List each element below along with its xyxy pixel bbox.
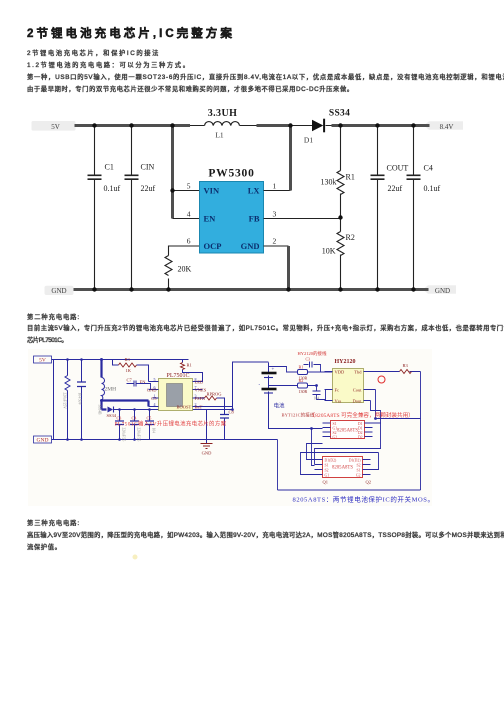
svg-text:C7: C7	[127, 378, 133, 383]
output capacitors C3 C4 C5 sch2	[115, 410, 154, 440]
net label 8.4V	[424, 121, 463, 131]
rotated value texts sch2	[63, 393, 156, 442]
svg-text:2MH: 2MH	[105, 387, 117, 393]
svg-text:G2: G2	[356, 474, 361, 478]
svg-text:S2: S2	[333, 431, 337, 435]
svg-text:3: 3	[273, 210, 277, 219]
resistor input R sch2	[65, 360, 70, 440]
svg-text:S2: S2	[356, 464, 360, 468]
battery cells sch2	[262, 363, 323, 429]
svg-text:BOOST: BOOST	[177, 405, 192, 410]
paragraph 2 line 2	[27, 335, 67, 344]
svg-text:G1: G1	[325, 474, 330, 478]
capacitor input C sch2	[77, 360, 86, 440]
schematic 2 background	[28, 349, 432, 506]
svg-text:RPROG: RPROG	[207, 392, 223, 397]
net label 5V sch2	[34, 356, 52, 364]
svg-text:3: 3	[195, 394, 197, 399]
svg-text:5V: 5V	[51, 123, 60, 131]
svg-text:S1: S1	[356, 469, 360, 473]
svg-text:GND: GND	[51, 287, 66, 295]
wire BAT to battery section	[203, 362, 269, 410]
svg-text:G1: G1	[333, 427, 338, 431]
svg-text:R1: R1	[346, 173, 355, 182]
svg-text:3.3UH: 3.3UH	[208, 108, 238, 119]
svg-text:HY2120的接线: HY2120的接线	[298, 350, 327, 357]
capacitor C1 0.1uf	[88, 127, 121, 290]
wires HY2120 to mosfets	[278, 372, 421, 491]
svg-text:1: 1	[273, 182, 277, 191]
paragraph 2 line 1	[27, 323, 504, 332]
junction dots schematic 1	[92, 123, 415, 291]
svg-text:Q1: Q1	[323, 480, 329, 485]
svg-text:8205A8TS：两节锂电池保护IC的开关MOS。: 8205A8TS：两节锂电池保护IC的开关MOS。	[293, 495, 435, 504]
svg-text:D1: D1	[358, 427, 363, 431]
svg-text:220uF/25V: 220uF/25V	[63, 393, 67, 410]
svg-text:104/50V: 104/50V	[78, 393, 82, 406]
svg-text:4: 4	[187, 210, 191, 219]
svg-text:D1: D1	[358, 422, 363, 426]
svg-text:+: +	[272, 368, 275, 373]
svg-text:COUT: COUT	[387, 164, 409, 173]
svg-text:0.1uf: 0.1uf	[104, 184, 121, 193]
wire pin5	[173, 190, 200, 192]
svg-text:R1: R1	[299, 365, 304, 370]
IC HY2120	[325, 359, 376, 404]
net label GND right	[423, 285, 456, 295]
svg-text:GND: GND	[147, 388, 157, 393]
svg-text:8.4V: 8.4V	[440, 123, 454, 131]
svg-text:Tbd: Tbd	[354, 370, 362, 375]
svg-text:130R: 130R	[299, 376, 308, 381]
svg-text:Fc: Fc	[335, 388, 340, 393]
blue pin digits sch2	[154, 377, 197, 407]
capacitor C4 0.1uf	[407, 127, 441, 290]
svg-text:R3: R3	[403, 363, 409, 368]
junction dots sch2	[66, 358, 377, 441]
sense resistors R1 R2 sch2	[269, 365, 333, 400]
wire pin4	[173, 218, 200, 220]
wire GND pin down	[264, 245, 289, 247]
svg-text:S2: S2	[325, 469, 329, 473]
svg-text:2: 2	[273, 237, 277, 246]
svg-text:22uf: 22uf	[141, 184, 156, 193]
net label GND left	[45, 286, 74, 295]
svg-text:R1: R1	[187, 363, 192, 368]
MOSFET pack Q2 8205A8TS	[315, 457, 372, 485]
wire 5V rail (thick)	[75, 124, 430, 127]
section heading 3	[27, 518, 80, 527]
wire LX to rail	[264, 190, 291, 192]
svg-text:D2: D2	[358, 436, 363, 440]
resistor R1 130k	[321, 127, 355, 218]
capacitor C8 sch2	[220, 410, 235, 440]
svg-text:VIN: VIN	[204, 186, 220, 196]
svg-text:D1(D2): D1(D2)	[325, 459, 338, 463]
svg-text:2: 2	[195, 402, 197, 407]
svg-text:（8205A8TS 可完全兼容，两颗封装共用）: （8205A8TS 可完全兼容，两颗封装共用）	[310, 411, 414, 419]
svg-text:GND: GND	[202, 451, 212, 456]
svg-text:4: 4	[154, 402, 156, 407]
wire thick L power path sch2	[102, 401, 149, 410]
MOSFET pack Q1 8205A8TS	[323, 421, 373, 440]
svg-text:D1: D1	[304, 136, 313, 145]
inductor L1 3.3UH	[205, 108, 240, 140]
wire FB to divider	[264, 218, 341, 220]
wire left vertical	[53, 360, 55, 440]
svg-text:6: 6	[154, 385, 156, 390]
svg-text:C3: C3	[306, 358, 311, 362]
svg-text:8205A8TS: 8205A8TS	[332, 466, 353, 471]
svg-text:LX: LX	[248, 186, 261, 196]
capacitor C7 top of chip sch2	[127, 378, 151, 390]
paragraph line 1	[27, 48, 160, 57]
svg-text:C1: C1	[105, 163, 114, 172]
wire GND rail (thick)	[72, 288, 429, 291]
paragraph line 3	[27, 72, 504, 81]
svg-text:PW5300: PW5300	[208, 168, 254, 180]
svg-text:6: 6	[187, 237, 191, 246]
svg-text:VDD: VDD	[335, 370, 345, 375]
svg-text:SS34: SS34	[329, 109, 350, 119]
svg-text:L1: L1	[215, 131, 224, 140]
wire pin6 + 20K branch	[169, 246, 200, 289]
inductor 2MH sch2	[102, 360, 117, 401]
svg-text:8: 8	[195, 377, 197, 382]
ground symbol sch2	[201, 410, 213, 456]
caps near HY2120	[304, 358, 321, 401]
net label 5V	[32, 121, 76, 131]
svg-text:220uF/25: 220uF/25	[122, 428, 126, 442]
svg-text:104: 104	[314, 397, 320, 401]
svg-text:5: 5	[154, 377, 156, 382]
svg-text:C4: C4	[424, 164, 433, 173]
svg-text:OCP: OCP	[204, 241, 222, 251]
svg-text:C5: C5	[147, 416, 152, 421]
svg-text:SS34B: SS34B	[98, 405, 102, 416]
svg-text:130k: 130k	[321, 178, 337, 187]
svg-text:SS34: SS34	[107, 413, 117, 418]
resistor 20K	[165, 256, 192, 276]
svg-text:22uf: 22uf	[388, 184, 403, 193]
wire VIN/EN branch (thick vertical)	[171, 126, 174, 219]
svg-text:Q2: Q2	[366, 480, 372, 485]
svg-text:7: 7	[195, 385, 197, 390]
paragraph line 2	[27, 60, 191, 69]
paragraph line 4	[27, 84, 354, 93]
svg-text:1K: 1K	[126, 368, 132, 373]
IC U1 PW5300	[187, 168, 277, 254]
svg-text:8205A8TS: 8205A8TS	[337, 429, 358, 434]
IC PL7501C	[140, 373, 207, 411]
resistor R1 sch2	[181, 360, 203, 382]
svg-text:S1: S1	[325, 464, 329, 468]
capacitor COUT 22uf	[371, 127, 409, 290]
wire GND bottom rail sch2	[52, 439, 278, 441]
svg-text:FB: FB	[249, 214, 260, 224]
svg-text:220uF/25: 220uF/25	[137, 428, 141, 442]
net label GND sch2	[34, 436, 52, 444]
svg-text:S1: S1	[333, 422, 337, 426]
svg-text:G2: G2	[333, 436, 338, 440]
svg-text:R3: R3	[125, 357, 131, 362]
title	[27, 25, 235, 41]
svg-text:Dout: Dout	[353, 399, 363, 404]
svg-text:电池: 电池	[274, 402, 286, 410]
svg-text:GND: GND	[241, 241, 260, 251]
svg-text:5V: 5V	[39, 358, 46, 364]
svg-text:GND: GND	[37, 438, 49, 444]
svg-text:EN: EN	[204, 214, 217, 224]
resistor R3 sch2	[113, 357, 149, 382]
red circle annotation	[378, 376, 385, 383]
diode D1 SS34	[304, 109, 350, 145]
paragraph 3 line 1	[27, 530, 504, 539]
cap value labels C3 C4 C5 sch2	[117, 416, 152, 421]
svg-text:Cout: Cout	[353, 388, 363, 393]
capacitor CIN 22uf	[125, 127, 156, 290]
paragraph 3 line 2	[27, 542, 61, 551]
svg-text:104: 104	[152, 428, 156, 434]
wire inductor leads	[190, 125, 332, 127]
svg-text:HY2120: HY2120	[335, 359, 356, 365]
wire 5V top rail sch2	[52, 359, 189, 361]
svg-text:R2: R2	[346, 233, 355, 242]
svg-text:PL7501C输入5V升压锂电池充电芯片的方案: PL7501C输入5V升压锂电池充电芯片的方案	[115, 420, 227, 428]
svg-text:20K: 20K	[178, 265, 192, 274]
svg-text:C3: C3	[117, 416, 122, 421]
svg-text:0.1uf: 0.1uf	[424, 184, 441, 193]
svg-text:CIN: CIN	[141, 163, 155, 172]
svg-text:130R: 130R	[299, 389, 308, 394]
svg-text:GND: GND	[435, 287, 450, 295]
svg-text:10K: 10K	[322, 247, 336, 256]
section heading 2	[27, 312, 80, 321]
resistor RPROG sch2	[203, 392, 225, 410]
svg-text:D2: D2	[358, 431, 363, 435]
resistor R2 10K	[322, 218, 355, 290]
svg-text:Vss: Vss	[335, 399, 342, 404]
svg-text:5: 5	[187, 182, 191, 191]
wires between mosfet packs	[301, 423, 381, 475]
svg-text:1: 1	[154, 394, 156, 399]
svg-text:D1(D2): D1(D2)	[349, 459, 362, 463]
diode SS34 sch2	[107, 407, 233, 419]
resistor R3 right sch2	[376, 363, 421, 374]
